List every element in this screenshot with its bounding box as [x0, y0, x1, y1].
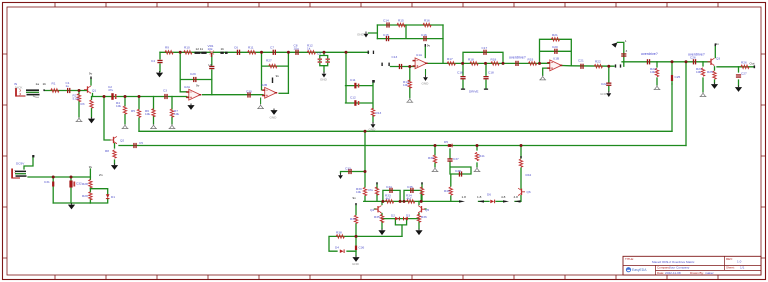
terminal flag cluster x422: [421, 182, 422, 184]
svg-text:GND: GND: [422, 82, 430, 86]
capacitor C4 top line start: [157, 60, 162, 63]
diode D3: [403, 217, 408, 221]
svg-text:R36: R36: [421, 215, 427, 219]
wire sub branch loop: [329, 236, 402, 251]
resistor R7: [170, 109, 173, 117]
terminal arrow switch: [612, 42, 618, 47]
svg-text:9v: 9v: [276, 74, 280, 78]
wire opamp1 output: [203, 94, 263, 96]
svg-text:4.8: 4.8: [514, 195, 519, 199]
line end pins: [368, 51, 374, 54]
resistor R21 fb: [551, 38, 559, 41]
svg-text:C11: C11: [350, 78, 356, 82]
svg-text:C34: C34: [386, 185, 392, 189]
junction n16 riser2: [685, 60, 688, 63]
wire top R stub x422: [421, 184, 423, 202]
wire gnd leg x703: [702, 62, 704, 92]
terminal flag x521 top: [520, 156, 521, 158]
svg-text:C15: C15: [383, 33, 389, 37]
wire upper loop rect1: [383, 190, 400, 201]
svg-text:Drawn By:: Drawn By:: [690, 271, 704, 275]
svg-text:C12: C12: [350, 96, 356, 100]
junction n28: [449, 144, 452, 147]
wire ground rail lower left: [53, 202, 90, 204]
wire x521 riser to bus2: [520, 146, 522, 189]
resistor R12: [307, 51, 315, 54]
svg-text:GND: GND: [369, 128, 377, 132]
wire left Q emitter chain: [375, 201, 396, 228]
capacitor C24: [647, 59, 650, 64]
resistor R27 bridge: [269, 64, 277, 67]
svg-text:9v: 9v: [427, 44, 431, 48]
svg-text:C17: C17: [482, 46, 488, 50]
wire bus2 from Q2: [119, 145, 686, 147]
svg-text:Out: Out: [750, 62, 755, 66]
resistor R37 x356: [354, 215, 357, 223]
frame tick marks bottom: [55, 275, 718, 280]
capacitor C16 fb bottom2: [423, 36, 426, 41]
diode D2: [395, 217, 400, 221]
resistor R39: [433, 155, 436, 163]
svg-text:1b: 1b: [221, 47, 225, 51]
capacitor C30: [247, 92, 250, 97]
wire twin cap box below x324: [320, 52, 328, 72]
svg-text:.47u: .47u: [367, 188, 373, 192]
op-amp U1A: [413, 58, 428, 69]
svg-text:Your Company: Your Company: [669, 266, 690, 270]
junction n29: [403, 200, 406, 203]
connector pin tick: [43, 89, 44, 91]
svg-text:DC9V: DC9V: [16, 162, 25, 166]
net arrow left 1: [478, 200, 484, 202]
op-amp U2B: [262, 87, 277, 98]
capacitor C8: [295, 50, 298, 55]
wire opamp1 input stubs: [187, 92, 189, 97]
wire opamp3 fb loop: [540, 39, 572, 75]
junction n6: [260, 51, 263, 54]
svg-text:GND: GND: [320, 78, 328, 82]
capacitor C26: [693, 59, 696, 64]
wire RC loop above line B: [463, 52, 503, 63]
ground blob: [378, 229, 385, 235]
wire cap leg x71: [70, 177, 72, 203]
svg-text:1b: 1b: [43, 82, 47, 86]
resistor R22: [594, 65, 602, 68]
svg-text:R25: R25: [707, 70, 713, 74]
wire x356 chain: [355, 205, 357, 256]
resistor R3 emitter: [90, 100, 93, 108]
capacitor C31: [52, 182, 54, 187]
9v stub opamp2b: [272, 78, 273, 84]
resistor R16 fb top2: [423, 23, 431, 26]
wire gnd leg x738.5: [738, 67, 740, 86]
svg-text:C22: C22: [601, 82, 607, 86]
svg-text:R344k7: R344k7: [406, 194, 412, 201]
junction n20: [364, 170, 367, 173]
svg-text:GND: GND: [270, 116, 278, 120]
wire opamp2b box verticals and bridge: [262, 52, 289, 93]
diode D6: [490, 200, 495, 204]
svg-text:C5: C5: [139, 141, 143, 145]
svg-text:C25: C25: [675, 75, 681, 79]
ground arrow GND: [369, 122, 377, 132]
wire line B opamp2 out: [426, 62, 550, 64]
ground plus input: [539, 75, 546, 80]
capacitor C3: [164, 94, 167, 99]
terminal flag ladder top: [372, 80, 375, 83]
svg-text:U2A: U2A: [184, 85, 191, 89]
ground stub A: [257, 98, 264, 109]
resistor R30 on cluster feed: [363, 187, 366, 195]
frame tick marks right: [761, 54, 766, 258]
resistor R36: [417, 214, 420, 222]
svg-text:D3: D3: [406, 214, 410, 218]
resistor R11: [248, 51, 256, 54]
junction n21: [381, 200, 384, 203]
wire Q2 emitter resistor to ground: [114, 144, 116, 165]
wire ladder x346 x373: [346, 52, 374, 122]
svg-text:C18: C18: [488, 71, 494, 75]
resistor R40: [449, 187, 452, 195]
wire pin stub top left: [24, 157, 33, 169]
svg-text:C30: C30: [246, 90, 252, 94]
ground: [654, 85, 661, 90]
junction bus2 n25: [434, 144, 437, 147]
svg-text:U2: U2: [208, 63, 212, 67]
resistor R26: [741, 65, 749, 68]
capacitor C28 on fb vertical: [209, 66, 214, 69]
resistor R25: [713, 71, 716, 79]
svg-text:DRIVE: DRIVE: [469, 90, 478, 94]
ground: [76, 117, 83, 122]
wire line C opamp3 out: [562, 65, 614, 68]
junction n4: [138, 95, 141, 98]
wire riser x104 down to Q2: [104, 97, 110, 141]
transistor Q5: [418, 206, 425, 213]
wire dc jack output: [28, 176, 90, 178]
wire 9v vertical right: [89, 169, 91, 203]
junction n22: [399, 200, 402, 203]
svg-text:JACK: JACK: [15, 86, 24, 90]
ground: [406, 98, 413, 103]
resistor R34 midline: [406, 200, 414, 203]
junction n10: [408, 65, 411, 68]
svg-text:C16: C16: [421, 33, 427, 37]
resistor R17: [447, 62, 455, 65]
svg-text:R1: R1: [52, 82, 56, 86]
svg-text:R19: R19: [528, 58, 534, 62]
wire cap leg x53.2: [52, 177, 54, 203]
resistor R8 below Q2: [113, 150, 116, 158]
ground: [156, 71, 163, 77]
resistor R28: [89, 179, 92, 187]
wire fb vertical x211.8: [211, 52, 213, 94]
svg-text:9v: 9v: [89, 72, 93, 76]
ground arrow opamp2: [422, 69, 430, 86]
capacitor C25 on riser1: [671, 75, 673, 81]
capacitor C19: [515, 61, 518, 66]
input jack J1: [15, 88, 39, 97]
ground: [88, 117, 95, 123]
svg-text:D6: D6: [487, 193, 491, 197]
svg-text:R42: R42: [526, 173, 532, 177]
transistor Q1: [84, 86, 91, 93]
svg-text:R41: R41: [479, 154, 485, 158]
capacitor C39 on bus2: [133, 143, 136, 148]
svg-text:R39: R39: [428, 156, 434, 160]
ground blob: [68, 203, 75, 209]
terminal flag x356 top: [355, 203, 356, 205]
svg-text:D4: D4: [335, 246, 339, 250]
capacitor C23 on switch vertical: [621, 53, 626, 56]
wire line A into opamp2: [391, 66, 416, 68]
svg-text:C38: C38: [455, 169, 461, 173]
wire second line y96.5: [93, 96, 187, 98]
svg-text:overdrive?: overdrive?: [509, 56, 526, 60]
junction n2: [103, 95, 106, 98]
svg-text:C21: C21: [578, 59, 584, 63]
wire Q1 emitter down and second line: [92, 94, 94, 97]
svg-text:R35: R35: [374, 215, 380, 219]
wire R leg x125: [124, 97, 126, 125]
9v tick Q1: [90, 77, 91, 80]
svg-text:9v: 9v: [353, 196, 357, 200]
svg-text:C29: C29: [190, 72, 196, 76]
wire top line start cap to ground: [159, 52, 161, 71]
capacitor C38 loop: [459, 171, 462, 176]
svg-text:R8: R8: [105, 149, 109, 153]
svg-text:C14: C14: [383, 19, 389, 23]
transistor Q6: [518, 188, 525, 195]
capacitor C7: [273, 50, 276, 55]
resistor R41: [475, 152, 478, 160]
resistor R29: [89, 192, 92, 200]
junction n15 riser1: [671, 60, 674, 63]
resistor R13 ladder: [371, 108, 374, 116]
capacitor C33 on y171.5: [348, 169, 351, 174]
svg-text:C4: C4: [151, 59, 155, 63]
svg-text:R26: R26: [741, 61, 747, 65]
capacitor C18a pot stub: [460, 76, 465, 79]
op-amp U1B: [547, 60, 562, 71]
wire pot stub below x462.6: [463, 63, 486, 88]
svg-text:Maxell OD9-2 Overdrive Matrix: Maxell OD9-2 Overdrive Matrix: [652, 260, 695, 264]
ground arrow left: [338, 173, 343, 179]
wire fb box op2 risers: [369, 25, 444, 63]
svg-text:9v: 9v: [716, 42, 720, 46]
capacitor C6: [237, 50, 240, 55]
svg-text:C36: C36: [359, 246, 365, 250]
svg-text:Zn: Zn: [99, 173, 103, 177]
svg-text:R40: R40: [444, 189, 450, 193]
resistor R19: [491, 62, 499, 65]
svg-text:R27: R27: [266, 59, 272, 63]
wire riser1 from main line to bus1: [671, 62, 673, 132]
capacitor C11 polar ladder top: [354, 83, 359, 89]
capacitor C2 polar: [111, 93, 116, 100]
pot pins: [461, 89, 488, 90]
ground arrow: [320, 72, 328, 82]
ground arrow fb: [357, 32, 368, 38]
capacitor C15 fb bottom: [386, 36, 389, 41]
capacitor C17 loop: [483, 50, 486, 55]
capacitor C9 in box: [318, 58, 322, 63]
op-amp U2A: [186, 89, 201, 100]
ground: [432, 167, 439, 172]
wire R leg x79: [78, 91, 80, 118]
capacitor C1: [67, 88, 70, 93]
svg-text:R9: R9: [165, 46, 169, 50]
junction bus2 n27: [520, 144, 523, 147]
wire diode pair loop: [395, 219, 407, 237]
svg-text:R10: R10: [184, 46, 190, 50]
resistor R24: [701, 68, 704, 76]
capacitor C22: [606, 83, 611, 86]
junction n14: [607, 65, 610, 68]
net arrow left 2: [515, 200, 521, 202]
svg-text:GND: GND: [352, 262, 360, 266]
resistor R15 fb top: [397, 23, 405, 26]
svg-text:R3: R3: [81, 102, 85, 106]
svg-text:R28: R28: [82, 182, 88, 186]
diode D4 sub branch: [340, 249, 345, 253]
svg-text:EasyEDA: EasyEDA: [632, 268, 647, 272]
wire gnd segment y171.5: [341, 172, 366, 174]
ground: [474, 167, 481, 172]
junction bus1 n19: [364, 130, 367, 133]
ground arrow: [600, 91, 611, 97]
svg-text:C20: C20: [552, 45, 558, 49]
junction n30: [484, 62, 487, 65]
resistor R35: [380, 214, 383, 222]
capacitor C27: [736, 74, 741, 77]
junction n3: [124, 95, 127, 98]
transistor Q4: [375, 206, 382, 213]
resistor R38 sub branch: [336, 235, 344, 238]
wire R leg x153.5: [153, 97, 155, 125]
svg-text:C35: C35: [407, 185, 413, 189]
ground blob opamp2b: [270, 109, 278, 120]
capacitor C12 polar ladder bottom: [354, 100, 359, 106]
ground blob: [415, 229, 422, 235]
svg-text:C31: C31: [44, 180, 50, 184]
wire arrow row segments: [479, 196, 522, 202]
svg-text:D2: D2: [391, 214, 395, 218]
svg-text:D5: D5: [444, 140, 448, 144]
diode D1 zener: [106, 194, 110, 199]
svg-text:C27: C27: [741, 72, 747, 76]
svg-text:C6: C6: [234, 46, 238, 50]
resistor R14: [408, 80, 411, 88]
ground blob: [352, 256, 360, 267]
resistor R5 on riser: [137, 109, 140, 117]
resistor R6: [152, 109, 155, 117]
wire gnd leg x714.5 under transistor: [714, 67, 716, 83]
svg-text:U1A: U1A: [416, 53, 423, 57]
resistor R19b: [528, 62, 536, 65]
svg-text:Q6: Q6: [527, 190, 531, 194]
resistor R9: [165, 51, 173, 54]
junction n9: [345, 51, 348, 54]
svg-text:Date:: Date:: [657, 271, 664, 275]
svg-text:9v: 9v: [196, 84, 200, 88]
svg-text:overdrive?: overdrive?: [641, 52, 658, 56]
svg-text:Q1: Q1: [92, 89, 96, 93]
resistor R4: [123, 106, 126, 114]
svg-text:U1B: U1B: [553, 57, 559, 61]
resistor R18 under loop: [470, 62, 478, 65]
wire cap leg on riser1: [671, 83, 673, 85]
wire riser2 from main line to bus2: [685, 62, 687, 146]
svg-text:1/1: 1/1: [740, 266, 745, 270]
svg-text:1a: 1a: [36, 82, 40, 86]
junction n1: [78, 89, 81, 92]
svg-text:REV:: REV:: [726, 257, 733, 261]
svg-text:C3: C3: [163, 89, 167, 93]
svg-text:1.8: 1.8: [477, 195, 482, 199]
transistor Q2: [110, 136, 117, 143]
svg-text:R15: R15: [398, 19, 404, 23]
junction n17: [52, 176, 55, 179]
wire bus2 chain x450: [450, 149, 471, 201]
wire fb box op2 branches: [377, 25, 443, 39]
variable element VR1: [210, 51, 215, 55]
EasyEDA logo: [626, 267, 647, 272]
svg-text:C13: C13: [392, 55, 398, 59]
switch pins S3: [615, 64, 621, 67]
wire upper loop rect2: [404, 190, 421, 201]
line A start pins: [381, 63, 389, 66]
svg-text:Q2: Q2: [120, 139, 124, 143]
svg-text:R38: R38: [336, 231, 342, 235]
svg-text:1.0: 1.0: [737, 260, 742, 264]
svg-text:C7: C7: [270, 46, 274, 50]
switch contact segments S1: [195, 52, 207, 54]
svg-text:9v: 9v: [89, 165, 93, 169]
svg-text:R17: R17: [447, 57, 453, 61]
svg-text:R16: R16: [424, 19, 430, 23]
junction n23: [420, 200, 423, 203]
svg-text:R21: R21: [552, 33, 558, 37]
ground blob opamp1: [187, 104, 194, 110]
svg-text:TITLE:: TITLE:: [625, 257, 634, 261]
capacitor C14 fb top: [386, 22, 389, 27]
transistor Q3 out: [708, 58, 715, 65]
ground: [169, 124, 176, 129]
ground: [111, 164, 118, 170]
svg-text:C18: C18: [457, 71, 463, 75]
wire opamp2 gnd leg x409.8: [409, 67, 411, 98]
resistor R42 on x521: [519, 159, 522, 167]
junction n18: [70, 176, 73, 179]
out pin tick: [754, 65, 756, 68]
frame tick marks left: [3, 54, 8, 258]
wire bus1: [139, 130, 672, 132]
resistor R31 top stub: [375, 187, 378, 195]
wire Q1 emitter resistor stub and ground: [91, 97, 93, 118]
junction n12: [502, 62, 505, 65]
svg-text:R37: R37: [350, 217, 356, 221]
ground: [122, 124, 129, 129]
junction n11: [461, 62, 464, 65]
wire fb vertical x180.2 and loop bottom: [180, 52, 212, 92]
capacitor C13: [399, 64, 402, 69]
svg-text:C26: C26: [690, 56, 696, 60]
capacitor C18b pot stub: [483, 76, 488, 79]
svg-text:GND: GND: [600, 92, 608, 96]
switch contact segment S2: [220, 52, 227, 54]
resistor R1: [51, 89, 59, 92]
